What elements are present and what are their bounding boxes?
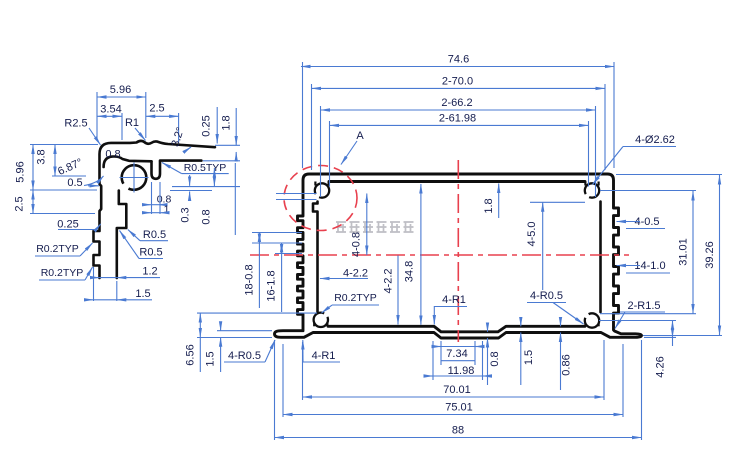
svg-text:R2.5: R2.5 (64, 118, 87, 130)
dimension 39.26 right (616, 174, 722, 176)
svg-text:4.26: 4.26 (655, 356, 667, 377)
svg-text:4-Ø2.62: 4-Ø2.62 (635, 134, 675, 146)
svg-text:3.8: 3.8 (36, 149, 48, 164)
svg-text:4-0.8: 4-0.8 (351, 232, 363, 257)
main profile inner floor line with center recess (328, 326, 585, 332)
screw boss bottom-left (314, 312, 330, 327)
svg-text:1.5: 1.5 (135, 288, 150, 300)
svg-text:0.25: 0.25 (201, 115, 213, 136)
svg-text:74.6: 74.6 (448, 54, 469, 66)
detail left wall inner line (117, 191, 127, 279)
svg-text:4-R1: 4-R1 (312, 350, 336, 362)
svg-text:R0.2TYP: R0.2TYP (36, 243, 79, 255)
svg-text:0.8: 0.8 (105, 149, 120, 161)
main profile left wall inner line with rib (313, 202, 318, 313)
svg-text:0.5: 0.5 (67, 177, 82, 189)
svg-text:31.01: 31.01 (678, 238, 690, 266)
svg-text:6.56: 6.56 (185, 344, 197, 365)
svg-text:0.3: 0.3 (180, 207, 192, 222)
svg-text:R0.5: R0.5 (143, 229, 166, 241)
svg-text:2-70.0: 2-70.0 (442, 76, 473, 88)
main profile right wall inner line (599, 202, 602, 313)
svg-text:18-0.8: 18-0.8 (244, 264, 256, 295)
detail inner corner curve and plate inner surface (104, 157, 152, 168)
svg-text:4-5.0: 4-5.0 (526, 221, 538, 246)
svg-text:39.26: 39.26 (704, 241, 716, 269)
dimension 2-70.0 (311, 84, 313, 170)
main profile inner top wall line (329, 180, 585, 183)
svg-text:R1: R1 (125, 117, 139, 129)
svg-text:A: A (356, 130, 364, 142)
detail inner surface line (160, 159, 201, 162)
svg-text:4-2.2: 4-2.2 (343, 268, 368, 280)
svg-text:70.01: 70.01 (443, 384, 471, 396)
svg-text:4-R0.5: 4-R0.5 (530, 290, 563, 302)
svg-text:16-1.8: 16-1.8 (266, 270, 278, 301)
svg-text:R0.2TYP: R0.2TYP (41, 267, 84, 279)
svg-text:0.8: 0.8 (201, 209, 213, 224)
svg-text:R0.2TYP: R0.2TYP (334, 292, 377, 304)
dimension 5.96 top (96, 92, 98, 140)
dimension 74.6 top (302, 62, 304, 168)
svg-text:4-2.2: 4-2.2 (383, 268, 395, 293)
svg-text:4-R0.5: 4-R0.5 (228, 350, 261, 362)
svg-text:5.96: 5.96 (110, 84, 131, 96)
screw boss top-left (314, 182, 329, 200)
svg-text:1.8: 1.8 (221, 115, 233, 130)
watermark 图纸仅供参考 (faux CJK glyph strokes) (336, 222, 414, 232)
dimension 31.01 right (600, 190, 696, 192)
svg-text:2-61.98: 2-61.98 (439, 113, 476, 125)
svg-text:11.98: 11.98 (448, 365, 475, 377)
svg-text:1.5: 1.5 (523, 350, 535, 365)
svg-text:75.01: 75.01 (445, 402, 473, 414)
svg-text:2-66.2: 2-66.2 (441, 97, 472, 109)
screw boss top-right (584, 182, 599, 200)
svg-text:88: 88 (452, 425, 464, 437)
detail slot U-shape (152, 162, 161, 179)
dimension 3.54 (121, 113, 123, 140)
dimension 2.5 top (178, 113, 180, 142)
svg-text:3.54: 3.54 (100, 104, 121, 116)
red detail circle A (284, 166, 357, 231)
svg-text:1.2: 1.2 (142, 266, 157, 278)
detail screw boss circle (120, 165, 147, 192)
dimension 2-61.98 (329, 121, 331, 187)
svg-text:R0.5TYP: R0.5TYP (184, 162, 227, 174)
svg-text:2.5: 2.5 (149, 103, 164, 115)
svg-text:34.8: 34.8 (404, 261, 416, 282)
svg-text:1.8: 1.8 (483, 198, 495, 213)
red vertical centerline (457, 160, 459, 342)
svg-text:2-R1.5: 2-R1.5 (627, 300, 660, 312)
shared extension vertical (234, 163, 236, 235)
dimension 2-66.2 (320, 106, 322, 197)
svg-text:7.34: 7.34 (446, 348, 467, 360)
red horizontal centerline (250, 254, 629, 256)
dimension 70.01 (302, 342, 304, 400)
svg-text:1.5: 1.5 (205, 351, 217, 366)
svg-text:0.86: 0.86 (561, 354, 573, 375)
svg-text:1: 1 (164, 204, 170, 216)
dimension 75.01 (282, 344, 284, 417)
svg-text:0.25: 0.25 (57, 219, 78, 231)
svg-text:0.8: 0.8 (489, 351, 501, 366)
screw boss bottom-right (584, 313, 600, 328)
detail boss center marks (133, 163, 135, 193)
detail profile outer outline (94, 141, 216, 278)
svg-text:4-R1: 4-R1 (442, 294, 466, 306)
svg-text:5.96: 5.96 (15, 161, 27, 182)
svg-text:R0.5: R0.5 (139, 247, 162, 259)
main profile outer outline (275, 174, 642, 338)
svg-text:2.5: 2.5 (14, 196, 26, 211)
dimension 88 (274, 340, 276, 440)
